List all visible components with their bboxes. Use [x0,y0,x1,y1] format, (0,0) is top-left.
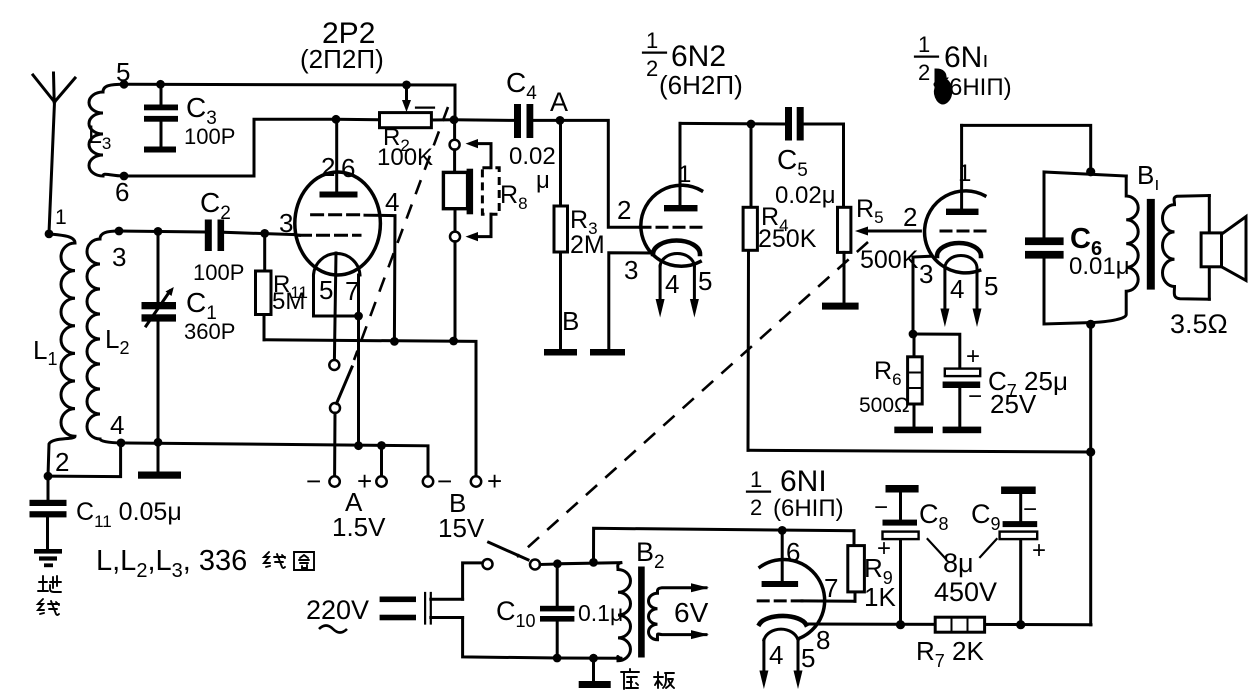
mains switch [483,542,558,569]
svg-text:4: 4 [950,274,964,304]
6N1 pin 3 lead [913,256,933,334]
wire C2 to grid of 2P2 [224,232,294,234]
battery B label [438,488,485,543]
antenna [33,73,75,233]
2P2 grid 1 (pin 4) [312,215,395,342]
wire grid row node3 to C2 [119,231,205,232]
node 4 [110,410,125,447]
node 3 [112,227,126,272]
svg-text:5: 5 [984,271,998,301]
capacitor C8 electrolytic [874,485,949,625]
chassis ground below C1 [138,442,181,478]
6N2 heater [660,254,694,266]
resistor R8 (dashed, replaces earphone) [466,139,528,241]
junction C8 rail [896,620,905,629]
6N1 cathode [937,243,981,256]
capacitor C7 electrolytic [913,334,1068,427]
2P2 filament [314,253,361,360]
6N2 grid (pin 2) [640,226,703,229]
svg-text:8: 8 [816,625,830,655]
svg-text:3: 3 [112,242,126,272]
svg-text:6: 6 [341,153,355,183]
capacitor C4 [454,67,560,194]
6N2 plate (pin 1) [664,123,698,211]
6N2 pin 5 lead [690,266,713,318]
node 2 [44,447,70,481]
svg-text:0.1μ: 0.1μ [578,600,623,626]
svg-text:6Nı: 6Nı [944,41,988,74]
svg-text:5: 5 [698,266,712,296]
svg-text:4: 4 [385,187,399,217]
svg-text:4: 4 [110,410,124,440]
dashed link R5 to mains switch [517,242,868,557]
svg-text:3: 3 [279,208,293,238]
capacitor C3 [144,84,235,152]
capacitor C11 [30,476,182,549]
inductor L3 [88,84,124,176]
inductor L2 [87,231,129,443]
tube 2P2 label [300,17,384,74]
tube 6N2 envelope [641,185,702,266]
battery switch (A supply) [329,360,352,477]
junction R2 wiper top [402,81,411,90]
svg-text:5M: 5M [272,288,305,315]
wire plug to bottom rail [463,618,557,659]
svg-text:2: 2 [918,60,930,85]
dashed link R2 to battery switch [354,107,448,360]
svg-text:8μ: 8μ [943,548,974,578]
tube 6N1 lower envelope [760,559,825,638]
battery B terminal minus [423,466,452,496]
tube 6N1 lower label [747,465,844,522]
svg-text:1: 1 [750,467,762,492]
capacitor C10 [496,564,623,658]
junction chassis stem [589,654,598,663]
svg-text:L,L2,L3, 336: L,L2,L3, 336 [96,545,247,582]
potentiometer R2 [336,85,453,171]
node A [550,87,568,125]
svg-text:0.02μ: 0.02μ [775,182,836,209]
wire node6 to plate node [124,119,336,176]
6N1 plate (pin 1) [946,125,979,215]
bottom rail to B2 [557,657,621,660]
B2 secondary 6V winding [649,583,710,639]
variable capacitor C1 [142,231,236,442]
tube 6N1 upper label [915,32,1012,103]
tube 6N2 label [643,28,743,100]
6N1 grid (pin 2) to R5 wiper [941,230,986,233]
wire 6N1 plate to output tank [962,125,1091,171]
junction pin4 on B rail [390,337,399,346]
junction rectifier plate [778,526,787,535]
svg-text:500Ω: 500Ω [859,394,910,417]
power transformer B2 primary [618,563,631,661]
capacitor C2 [193,187,244,285]
svg-text:A: A [550,87,568,117]
transformer B1 core [1147,199,1155,290]
6N1 lower plate (pin 6) [762,530,801,587]
speaker [1170,196,1246,340]
2P2 grid 2 (pin 3, control grid) [294,233,360,237]
battery A terminal minus [306,466,340,496]
6N1 lower pin 5 lead [794,640,816,689]
svg-text:μ: μ [536,167,550,194]
svg-text:−: − [1023,496,1037,523]
svg-text:2: 2 [321,152,335,182]
output transformer B1 primary [1092,176,1138,323]
svg-text:6NI: 6NI [780,465,827,498]
wire node2 loop to node4 [48,443,121,477]
chassis ground below R6 [894,427,933,434]
top rail to B2 [557,563,620,564]
svg-text:2M: 2M [570,231,605,259]
earphone (receiver) [443,150,473,232]
6N1 lower heater [764,629,798,640]
svg-text:1: 1 [55,206,67,229]
junction jack line on B rail [449,337,458,346]
junction tank bottom [1086,320,1095,329]
6N2 cathode [653,241,700,254]
svg-text:2: 2 [646,56,658,81]
wire 6N2 plate to C5 [680,122,785,126]
junction plate node [332,115,341,124]
chassis ground below R5 [822,303,859,310]
capacitor C5 [775,107,844,209]
svg-text:(2Π2Π): (2Π2Π) [300,44,384,74]
resistor R4 [743,124,817,450]
svg-text:4: 4 [769,640,783,670]
inductor L1 [33,234,75,476]
6N2 cathode lead to ground [590,253,652,356]
svg-text:360P: 360P [184,319,235,344]
junction R11 top [260,229,269,238]
6N1 lower grid (pin 7) [758,573,855,603]
tube 2P2 envelope [295,172,381,275]
svg-text:6V: 6V [674,597,709,628]
junction pins 5,7 [354,312,363,321]
svg-text:2: 2 [903,202,917,232]
node 6 [115,172,129,207]
svg-text:7: 7 [345,276,359,306]
battery A terminal plus [357,446,387,497]
wire plug to switch [463,563,483,599]
resistor R3 [554,120,605,349]
svg-text:1: 1 [918,32,930,57]
svg-text:1: 1 [646,28,658,53]
phone jack upper contact [450,120,460,150]
chassis ground below R3 [544,349,577,356]
svg-text:5: 5 [801,643,815,673]
svg-text:5: 5 [116,57,130,87]
B1 secondary [1163,196,1210,300]
B+ vertical wire [1089,324,1092,624]
svg-text:450V: 450V [934,577,997,607]
capacitor C9 electrolytic [971,487,1046,625]
label 8u 450V with pointers [928,539,997,607]
text L,L2,L3, 336 线圈 [96,545,314,582]
junction tank top [1086,167,1095,176]
svg-text:100P: 100P [193,260,244,285]
junction cathode node [909,330,918,339]
svg-text:6N2: 6N2 [671,40,726,73]
svg-text:3: 3 [624,255,638,285]
resistor R9 [848,531,897,612]
svg-text:100P: 100P [184,124,235,149]
resistor R11 [256,233,309,339]
svg-text:(6H2Π): (6H2Π) [659,70,743,100]
2P2 pins 5,7 leads [314,275,359,446]
svg-text:15V: 15V [438,513,485,543]
wire node A to 6N2 grid [560,120,640,227]
phone jack lower contact [450,232,460,341]
svg-text:2: 2 [750,495,762,520]
capacitor C6 [1025,223,1130,280]
chassis ground below C7 [943,427,982,434]
6N1 pin 5 lead [973,268,999,327]
svg-text:R7 2K: R7 2K [916,636,984,671]
wire L3 top to C3 and R2 arrow [124,83,455,87]
junction rectifier riser [589,558,598,567]
220V label [306,595,369,633]
6N1 lower cathode (pin 8) [760,616,1092,655]
junction B+ rail [1086,447,1095,456]
junction C3 top [156,80,165,89]
svg-text:−: − [306,466,321,496]
battery A label [332,487,386,542]
resistor R7 [916,617,985,671]
6N1 lower pin 4 lead [759,640,783,689]
junction C1 bottom [154,438,163,447]
junction C10 bottom [553,654,562,663]
earth ground 地线 [34,549,62,615]
6N1 pin 4 lead [940,268,964,327]
svg-text:(6HIΠ): (6HIΠ) [773,495,844,522]
ground rail junction filament [354,441,363,450]
svg-text:2: 2 [617,195,631,225]
svg-text:3.5Ω: 3.5Ω [1170,309,1228,339]
svg-text:1: 1 [958,160,971,187]
mains plug [380,593,463,624]
svg-text:+: + [966,343,980,370]
svg-text:6: 6 [786,537,800,567]
svg-text:25V: 25V [990,389,1037,419]
battery B terminal plus [471,466,502,496]
wire top right corner down to R2 right node [454,85,457,120]
svg-text:0.01μ: 0.01μ [1069,253,1130,280]
chassis ground 底板 [579,658,674,689]
svg-text:5: 5 [319,275,333,305]
junction R4 top [747,120,756,129]
wire R4 bottom rail [748,450,1091,452]
svg-text:7: 7 [824,573,838,603]
junction C1 top [154,227,163,236]
svg-text:1K: 1K [864,582,896,612]
2P2 plate [320,119,358,197]
tank loop wires [1044,172,1126,324]
svg-text:3: 3 [919,259,933,289]
svg-text:+: + [1032,537,1046,564]
svg-text:500K: 500K [860,246,919,274]
junction R2 right / C4 left [450,115,459,124]
resistor R6 [859,334,922,427]
tube 6N1 upper envelope [925,191,985,273]
node 4 to ground rail wire [121,443,428,477]
node 1 [45,206,67,238]
svg-text:2: 2 [55,447,69,477]
junction switch / C10 top [553,559,562,568]
ground rail junction A+ [377,441,386,450]
svg-text:1: 1 [678,161,691,188]
potentiometer R5 [838,195,921,303]
svg-text:250K: 250K [758,225,817,253]
svg-text:+: + [877,535,891,562]
junction C9 rail [1016,620,1025,629]
svg-text:4: 4 [665,269,679,299]
svg-text:6: 6 [115,177,129,207]
6N2 pin 4 lead [656,266,680,318]
wire B2 top to rectifier plate [594,528,855,562]
transformer B2 core [638,567,645,658]
node 5 [116,57,130,89]
svg-text:−: − [874,494,888,521]
svg-text:B: B [562,306,579,336]
svg-text:0.02: 0.02 [509,143,556,170]
svg-text:1.5V: 1.5V [332,512,386,542]
svg-text:220V: 220V [306,595,369,625]
svg-text:+: + [487,466,502,496]
svg-text:−: − [968,383,982,410]
B+ rail wire (R11 bottom to B+ terminal) [264,340,476,477]
6N1 heater [945,255,977,268]
